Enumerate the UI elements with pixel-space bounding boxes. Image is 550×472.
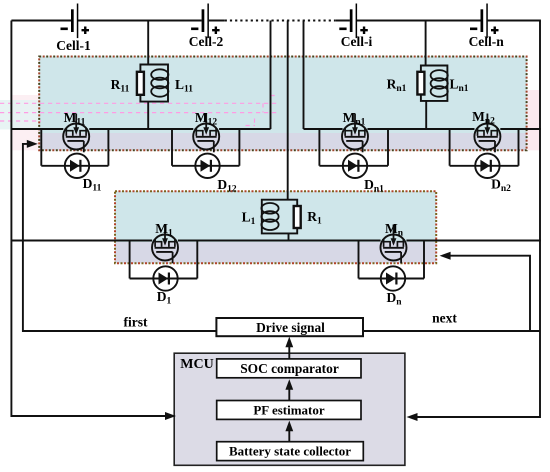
diode Dn1 xyxy=(343,154,384,195)
Battery state collector box xyxy=(217,442,364,461)
svg-text:PF estimator: PF estimator xyxy=(253,402,325,417)
left rail wire xyxy=(11,21,176,421)
transistor M12 xyxy=(193,110,219,152)
transistor Mn2 xyxy=(472,109,500,152)
svg-text:Battery state collector: Battery state collector xyxy=(229,444,351,459)
transistor Mn1 xyxy=(342,110,368,152)
svg-text:first: first xyxy=(124,315,148,330)
svg-text:next: next xyxy=(432,311,457,326)
svg-text:D11: D11 xyxy=(83,176,102,194)
svg-text:Cell-n: Cell-n xyxy=(469,34,505,49)
drive signal right wire with next-loop arrow xyxy=(363,252,540,331)
pink dashed overlay lines xyxy=(0,96,429,244)
svg-text:D1: D1 xyxy=(157,289,172,307)
svg-text:D12: D12 xyxy=(217,177,237,195)
transistor Mn xyxy=(381,221,407,263)
svg-text:SOC comparator: SOC comparator xyxy=(240,361,339,376)
label next xyxy=(432,311,457,326)
svg-text:Cell-2: Cell-2 xyxy=(189,34,224,49)
module A wires (row 1 left) xyxy=(11,21,270,166)
diode D12 xyxy=(195,154,237,195)
module B wires (row 1 right) xyxy=(304,21,541,166)
arrow PF to SOC xyxy=(285,379,293,400)
diode Dn2 xyxy=(475,154,511,194)
svg-text:MCU: MCU xyxy=(180,357,213,372)
cell C2 battery xyxy=(189,4,224,50)
box 1 dashed border xyxy=(39,57,526,151)
svg-text:Cell-1: Cell-1 xyxy=(56,38,91,53)
cell C1 battery xyxy=(56,4,91,54)
diode Dn xyxy=(381,266,405,307)
right rail wire xyxy=(407,21,541,422)
label first xyxy=(124,315,148,330)
svg-text:Dn: Dn xyxy=(386,290,402,308)
arrow MCU to drive signal xyxy=(285,337,293,359)
arrow collector to PF xyxy=(285,421,293,442)
svg-text:Drive signal: Drive signal xyxy=(256,320,325,335)
PF estimator box xyxy=(217,401,361,420)
Drive signal box xyxy=(216,318,363,336)
drive signal left wire with arrow xyxy=(23,140,217,331)
diode D11 xyxy=(65,154,102,194)
balancing converter box 1 (cell-level, light blue) xyxy=(0,57,540,151)
SOC comparator box xyxy=(217,359,361,378)
box 2 dashed border xyxy=(115,191,436,263)
svg-text:Cell-i: Cell-i xyxy=(341,34,373,49)
top bus wire xyxy=(11,20,541,22)
transistor M1 xyxy=(152,221,178,263)
MCU box xyxy=(174,353,405,465)
svg-text:Dn2: Dn2 xyxy=(491,177,511,195)
RL combo n1 (Rn1 Ln1) xyxy=(387,21,469,101)
diode D1 xyxy=(153,266,177,306)
svg-text:Dn1: Dn1 xyxy=(364,177,384,195)
balancing converter box 2 (pack-level, light blue) xyxy=(115,191,436,263)
module C wires (row 2) xyxy=(11,21,541,279)
RL combo pack (L1 R1) xyxy=(242,200,322,234)
cell Ci battery xyxy=(339,4,372,50)
RL combo 1 (R11 L11) xyxy=(111,21,194,102)
cell Cn battery xyxy=(469,4,505,50)
transistor M11 xyxy=(63,110,89,152)
